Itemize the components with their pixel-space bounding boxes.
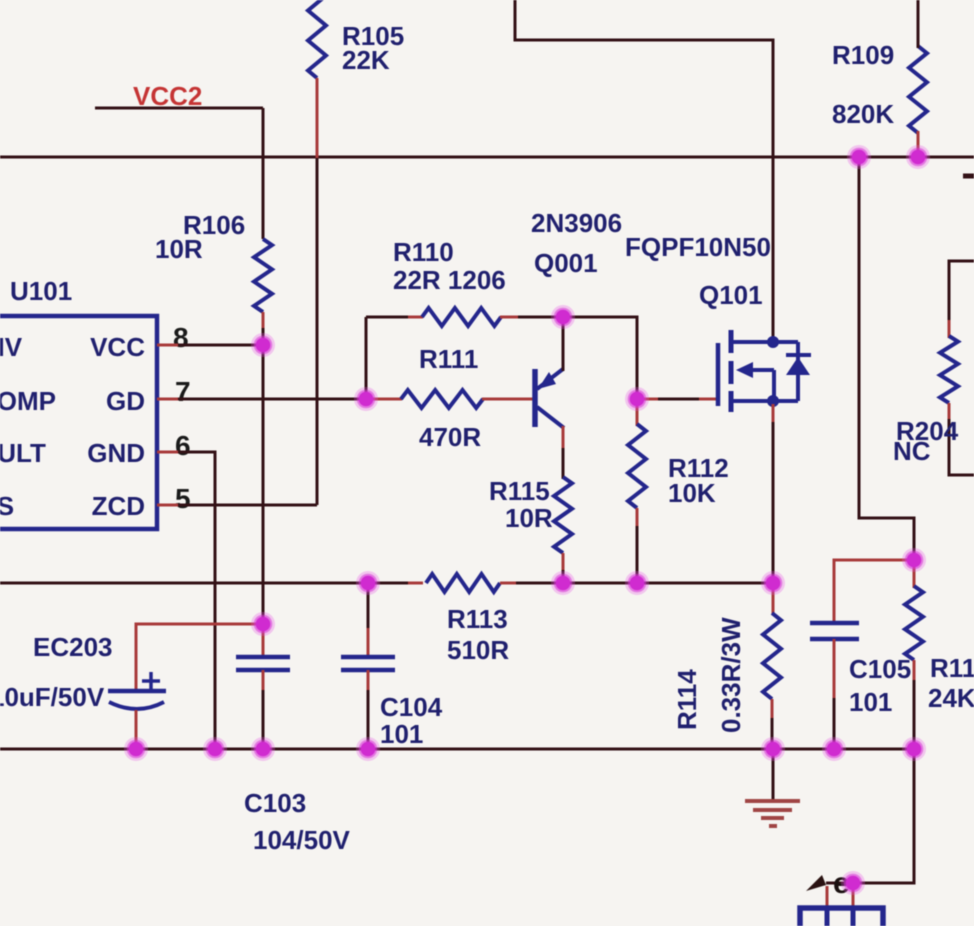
capacitor C103 top red lead (262, 624, 265, 656)
wire: R105 to ZCD pin 5 vertical (316, 158, 319, 505)
wire: R113 left red stub (408, 582, 423, 585)
capacitor EC203 electrolytic symbol (108, 672, 166, 709)
wire: stub at right edge y=176 (963, 174, 974, 179)
resistor R116 zigzag (905, 586, 923, 660)
wire: bottom ground bus horizontal (0, 748, 914, 751)
junction dot: node top bus / R109 (906, 145, 930, 169)
wire: R114 bottom red stub (771, 699, 774, 720)
wire: connector node to pin 1 (826, 882, 853, 885)
resistor R110 (22R 1206) zigzag (422, 308, 501, 326)
svg-text:22R 1206: 22R 1206 (393, 265, 506, 295)
junction dot: node bus / C104 (356, 737, 380, 761)
wire: VCC2 net vertical drop to R106 (262, 108, 265, 239)
svg-text:R111: R111 (419, 344, 478, 374)
svg-text:7: 7 (175, 376, 191, 407)
wire: C103 bottom lead (262, 690, 265, 749)
wire: pin 8 VCC red stub (157, 344, 180, 347)
wire: pin 5 ZCD to R105 (178, 504, 317, 507)
resistor R114 (0.33R/3W) top red stub (772, 583, 775, 615)
resistor R112 (10K) top red stub (636, 399, 639, 426)
svg-text:5: 5 (175, 483, 191, 514)
wire: pin 8 VCC to node (178, 344, 263, 347)
svg-text:R109: R109 (832, 40, 894, 70)
op-amp U101 controller box (0, 316, 157, 529)
wire: main horizontal bus (top, y=157) (0, 156, 974, 159)
junction dot: node R113 / C104 (356, 571, 380, 595)
svg-text:2N3906: 2N3906 (531, 208, 622, 238)
svg-text:VCC: VCC (90, 332, 145, 362)
svg-text:R114: R114 (672, 669, 702, 730)
svg-text:470R: 470R (419, 422, 481, 452)
svg-text:0.33R/3W: 0.33R/3W (716, 617, 746, 733)
svg-text:8: 8 (173, 322, 189, 353)
wire: emitter node to gate node corner (563, 317, 637, 399)
junction dot: node bus / EC203 (124, 737, 148, 761)
wire: R106 to VCC pin node (262, 328, 265, 345)
wire: R113 net horizontal left (0, 582, 410, 585)
junction dot: node bus / C105 (822, 737, 846, 761)
wire: Q001 emitter vertical to node (562, 317, 565, 371)
wire: Q001 collector to R115 (562, 448, 565, 479)
wire: right vertical to connector (853, 749, 914, 883)
capacitor C105 branch wire (834, 560, 914, 625)
wire: Q101 source red stub (772, 404, 775, 424)
junction dot: node gate / R112 (625, 387, 649, 411)
wire: R114 bottom lead (771, 718, 774, 749)
resistor R204 zigzag (940, 336, 958, 403)
resistor R204 (NC) top lead (949, 261, 974, 322)
wire: R110 right lead to emitter node (518, 316, 563, 319)
wire: C104 bottom lead (367, 690, 370, 749)
transistor Q1 FQPF10N50 Q101 MOSFET symbol (718, 330, 811, 412)
svg-text:R116: R116 (930, 653, 974, 683)
wire: R110 right red stub (500, 316, 520, 319)
wire: top jog from transformer to MOSFET drain (515, 0, 773, 340)
resistor R112 (10K) zigzag (628, 424, 646, 508)
svg-text:HV: HV (0, 332, 23, 362)
node pin-1 arrow marker (806, 875, 826, 891)
wire: pin 6 GND red stub (157, 451, 180, 454)
wire: R111 right red stub to base (482, 398, 534, 401)
svg-text:ZCD: ZCD (92, 491, 145, 521)
junction dot: node R113 / R115 (551, 571, 575, 595)
svg-text:CS: CS (0, 491, 14, 521)
capacitor C104 symbol (341, 657, 395, 670)
svg-text:R113: R113 (447, 604, 508, 634)
wire: right vertical from top bus x=859 (859, 157, 914, 560)
svg-text:10R: 10R (155, 234, 203, 264)
ground symbol stub (772, 749, 775, 801)
wire: VCC2 net horizontal (95, 107, 263, 110)
svg-text:C105: C105 (849, 654, 911, 684)
wire: R113 net R115 to R112 node (563, 582, 637, 585)
svg-text:C103: C103 (244, 788, 306, 818)
wire: R109 top lead (917, 0, 920, 48)
wire: GD node up to R110 level (365, 317, 368, 399)
junction dot: node R110 / Q001 emitter (551, 305, 575, 329)
resistor R106 (10R) zigzag (254, 239, 272, 312)
junction dot: node R113 / R112 (625, 571, 649, 595)
capacitor EC203 top red lead (135, 639, 138, 690)
svg-text:101: 101 (849, 687, 892, 717)
capacitor C104 top red stub (367, 628, 370, 656)
wire: pin 7 GD red stub (157, 398, 180, 401)
junction dot: node VCC line / EC203 (251, 612, 275, 636)
svg-text:GD: GD (106, 386, 145, 416)
svg-text:10K: 10K (668, 478, 716, 508)
wire: R204 bottom red stub (948, 403, 951, 421)
svg-text:104/50V: 104/50V (253, 825, 351, 855)
wire: connector pin red lead a (826, 886, 829, 910)
junction dot: node connector junction (841, 871, 865, 895)
wire: R113 net R112 to R114 node (637, 582, 773, 585)
svg-text:R110: R110 (393, 237, 454, 267)
resistor R109 (820K) zigzag (909, 46, 927, 133)
svg-text:6: 6 (175, 430, 191, 461)
wire: R110 left lead (366, 316, 410, 319)
wire: R112 bottom lead (636, 526, 639, 583)
junction dot: node C105 / R116 (902, 548, 926, 572)
resistor R105 (22K) zigzag (308, 0, 326, 78)
svg-text:VCC2: VCC2 (133, 81, 202, 111)
wire: R112 bottom red stub (636, 508, 639, 528)
wire: R116 bottom red stub (913, 660, 916, 682)
wire: R105 bottom red pin stub (316, 78, 319, 160)
resistor R204 top red stub (948, 320, 951, 338)
svg-text:10uF/50V: 10uF/50V (0, 682, 105, 712)
junction dot: node bus / R114 (761, 737, 785, 761)
svg-text:EC203: EC203 (33, 632, 113, 662)
svg-text:Q101: Q101 (699, 280, 763, 310)
wire: VCC node down vertical x=263 (262, 345, 265, 624)
wire: EC203 bottom red lead (135, 710, 138, 749)
svg-text:10R: 10R (505, 503, 553, 533)
resistor R116 (24K) top red stub (913, 560, 916, 588)
svg-text:820K: 820K (832, 99, 894, 129)
wire: R115 bottom lead (562, 570, 565, 583)
wire: R109 bottom red stub (917, 131, 920, 157)
resistor R111 (470R) zigzag (401, 390, 483, 408)
svg-text:R115: R115 (489, 476, 550, 506)
svg-text:22K: 22K (342, 45, 390, 75)
wire: gate red stub at gate bar (699, 398, 718, 401)
junction dot: node VCC pin8 / R106 (251, 333, 275, 357)
junction dot: node GD / R111 / R110 (354, 387, 378, 411)
resistor R113 (510R) zigzag (426, 574, 500, 592)
wire: gate wire to Q101 (658, 398, 701, 401)
svg-text:Q001: Q001 (534, 248, 598, 278)
wire: pin 5 ZCD red stub (157, 504, 180, 507)
svg-text:COMP: COMP (0, 386, 56, 416)
svg-text:C104: C104 (380, 692, 443, 722)
transistor Q2 2N3906 Q001 symbol (535, 369, 564, 428)
junction dot: node bus / C103 (251, 737, 275, 761)
capacitor C104 top lead (367, 583, 370, 630)
svg-text:24K: 24K (928, 683, 974, 713)
wire: pin 7 GD to node (178, 398, 366, 401)
wire: R113 right red stub (500, 582, 518, 585)
capacitor EC203 branch wire (136, 624, 263, 641)
resistor R115 (10R) zigzag (554, 477, 572, 553)
wire: connector pin red lead b (852, 883, 855, 910)
ground symbol bars (745, 801, 800, 826)
wire: gate node red stub (637, 398, 660, 401)
wire: R116 bottom lead (913, 680, 916, 749)
junction dot: node R113 / Q101 source / R114 (761, 571, 785, 595)
svg-text:FQPF10N50: FQPF10N50 (625, 232, 771, 262)
svg-text:101: 101 (380, 719, 423, 749)
wire: R110 left red stub (408, 316, 423, 319)
wire: R115 bottom red stub (562, 553, 565, 572)
wire: Q101 source down to R113 node (772, 422, 775, 583)
wire: C105 bottom red lead (833, 639, 836, 700)
wire: C103 bottom red lead (262, 670, 265, 692)
wire: C105 bottom lead (833, 698, 836, 749)
svg-text:U101: U101 (10, 276, 72, 306)
svg-text:FAULT: FAULT (0, 438, 46, 468)
capacitor C105 symbol (810, 623, 859, 639)
svg-text:NC: NC (893, 436, 931, 466)
connector J1 box (800, 908, 883, 926)
wire: Q001 collector red stub (562, 426, 565, 450)
junction dot: node bus / R116 (902, 737, 926, 761)
junction dot: node bus / GND pin (203, 737, 227, 761)
capacitor C103 symbol (236, 657, 290, 670)
wire: pin 6 GND jog (178, 452, 215, 749)
resistor R114 zigzag (763, 613, 781, 699)
junction dot: node top bus / x859 (847, 145, 871, 169)
wire: R111 left red stub (366, 398, 402, 401)
wire: C104 bottom red lead (367, 670, 370, 692)
wire: R113 net to R115 node (516, 582, 563, 585)
svg-text:GND: GND (87, 438, 145, 468)
wire: R106 bottom red stub (262, 312, 265, 330)
svg-text:510R: 510R (447, 635, 509, 665)
wire: R204 bottom lead (949, 419, 974, 475)
